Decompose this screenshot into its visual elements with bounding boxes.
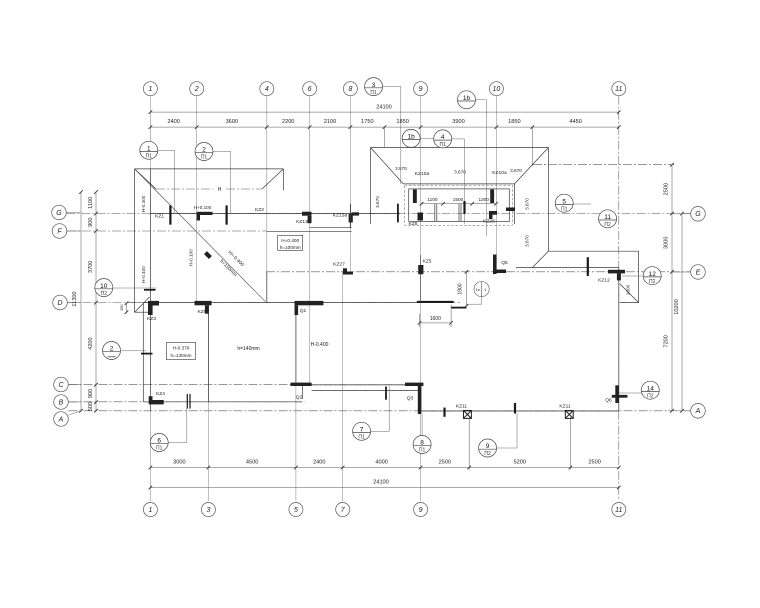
- svg-text:E: E: [696, 269, 701, 276]
- svg-text:11: 11: [615, 507, 622, 514]
- svg-text:h=100mm: h=100mm: [280, 245, 301, 250]
- svg-text:1e: 1e: [476, 288, 480, 292]
- porch slab outline: [409, 189, 510, 222]
- extension line eave to right dims: [533, 164, 674, 166]
- svg-text:5200: 5200: [514, 460, 526, 466]
- section marker 1b top: [458, 91, 476, 109]
- section marker 7: [353, 422, 371, 440]
- porch inner flat edge top: [403, 183, 514, 185]
- grid bubble A (right): [691, 404, 706, 419]
- roof corner box edge: [148, 303, 150, 312]
- grid line axis 3: [207, 303, 209, 501]
- svg-text:9: 9: [419, 507, 423, 514]
- grid bubble 10 (top): [489, 82, 503, 96]
- canopy hip south: [620, 284, 639, 303]
- grid line axis 11: [618, 96, 620, 501]
- grid bubble 11 (bottom): [612, 503, 626, 517]
- svg-text:KZ26: KZ26: [483, 218, 495, 224]
- svg-text:H-0.400: H-0.400: [141, 266, 146, 283]
- svg-text:2: 2: [110, 346, 114, 353]
- svg-text:10200: 10200: [674, 299, 680, 315]
- svg-text:KZ11: KZ11: [559, 403, 571, 409]
- wall axis 3 interior: [207, 303, 209, 402]
- svg-text:2400: 2400: [167, 119, 179, 125]
- grid bubble A (left): [54, 412, 69, 427]
- svg-text:1600: 1600: [430, 316, 441, 322]
- svg-text:KZ8: KZ8: [409, 221, 418, 227]
- column KZ4: [149, 396, 153, 400]
- svg-text:450: 450: [120, 305, 124, 311]
- svg-text:П1: П1: [358, 435, 365, 441]
- section marker 2b leader: [121, 350, 146, 352]
- svg-text:H-0.100: H-0.100: [189, 249, 194, 266]
- section marker 3: [365, 78, 383, 96]
- svg-text:1200: 1200: [478, 197, 489, 202]
- section marker 6 leader: [166, 442, 187, 444]
- section marker 5 leader: [573, 203, 591, 205]
- svg-text:3: 3: [372, 82, 376, 89]
- column KZ26: [489, 211, 497, 215]
- roof hip bottom-left: [135, 297, 150, 312]
- porch door frame bars 2: [458, 204, 460, 222]
- section marker 9 leader: [494, 447, 517, 449]
- svg-text:8: 8: [420, 440, 424, 447]
- dim 450 left: [126, 303, 128, 312]
- wall step at Q3: [419, 385, 421, 411]
- svg-text:3000: 3000: [663, 236, 669, 248]
- svg-text:11300: 11300: [72, 291, 78, 306]
- section marker 4: [434, 130, 452, 148]
- column blob right of KZ26: [506, 208, 515, 212]
- svg-text:П2: П2: [604, 222, 611, 228]
- svg-text:4200: 4200: [88, 337, 94, 349]
- column KZ9: [195, 301, 212, 305]
- door tick axis2-4: [226, 205, 228, 224]
- svg-text:A: A: [58, 416, 64, 423]
- svg-text:П2: П2: [484, 451, 491, 457]
- wall axis 4 to E corner: [266, 272, 268, 303]
- svg-text:KZ10a: KZ10a: [415, 171, 430, 177]
- svg-text:2500: 2500: [588, 460, 600, 466]
- wall step at Q2: [301, 385, 303, 399]
- extension line 1850 tick: [531, 128, 533, 167]
- svg-text:A: A: [695, 408, 701, 415]
- grid bubble 11 (top): [612, 82, 626, 96]
- svg-text:10: 10: [100, 283, 108, 290]
- svg-text:KZ4: KZ4: [156, 391, 165, 397]
- beam thick segment on D: [417, 301, 454, 303]
- svg-text:3.570: 3.570: [395, 166, 407, 171]
- porch roof left edge: [370, 148, 372, 225]
- porch hip right: [515, 148, 549, 184]
- section tick at E wall: [587, 257, 589, 276]
- section marker 2 leader: [213, 151, 231, 153]
- svg-text:7200: 7200: [663, 335, 669, 347]
- svg-text:Q5: Q5: [501, 260, 508, 266]
- svg-text:9: 9: [486, 443, 490, 450]
- grid line axis B: [69, 401, 306, 403]
- porch hip left: [371, 148, 404, 184]
- svg-text:h=140mm: h=140mm: [237, 346, 259, 352]
- grid bubble 7 (bottom): [336, 503, 350, 517]
- svg-text:Q6: Q6: [605, 397, 612, 403]
- section marker 11: [599, 210, 617, 228]
- grid line axis E: [266, 271, 691, 273]
- porch roof top edge: [371, 147, 549, 149]
- svg-text:3000: 3000: [173, 460, 185, 466]
- section marker 9: [479, 439, 497, 457]
- svg-text:6: 6: [157, 438, 161, 445]
- svg-text:1b: 1b: [463, 95, 471, 102]
- column KZ3: [148, 301, 159, 306]
- svg-text:24100: 24100: [373, 480, 389, 486]
- section marker 4 leader: [452, 138, 465, 140]
- beam line above F: [310, 227, 352, 229]
- beam end thick tick: [451, 307, 467, 309]
- grid line axis 4: [266, 96, 268, 303]
- svg-text:П1: П1: [146, 154, 153, 160]
- section marker 5: [555, 194, 573, 212]
- svg-text:3: 3: [206, 507, 210, 514]
- svg-text:1: 1: [147, 146, 151, 153]
- wall axis A south: [420, 410, 619, 412]
- section marker 8: [413, 436, 431, 454]
- grid bubble E (right): [691, 265, 706, 280]
- svg-text:4450: 4450: [569, 119, 581, 125]
- svg-text:900: 900: [88, 389, 94, 398]
- svg-text:KZ1: KZ1: [155, 214, 164, 220]
- door tick at A wall 2: [514, 403, 516, 414]
- svg-text:KZ9: KZ9: [198, 309, 207, 315]
- grid bubble 3 (bottom): [201, 503, 215, 517]
- wall axis 11 east: [618, 268, 620, 412]
- dim 1900 vertical: [466, 272, 468, 306]
- grid bubble 9 (top): [414, 82, 428, 96]
- svg-text:14: 14: [647, 385, 655, 392]
- door tick at B wall: [186, 394, 188, 409]
- roof eave right edge (left block): [282, 169, 284, 191]
- roof hip top-left: [135, 169, 156, 189]
- porch hidden edge (dashed): [405, 185, 513, 225]
- svg-text:9: 9: [419, 86, 423, 93]
- svg-text:1500: 1500: [453, 197, 464, 202]
- svg-text:1750: 1750: [361, 119, 373, 125]
- svg-text:П1: П1: [370, 90, 377, 96]
- svg-text:B: B: [59, 399, 64, 406]
- svg-text:1: 1: [148, 86, 152, 93]
- svg-text:Q3: Q3: [407, 395, 414, 401]
- svg-text:3.670: 3.670: [525, 235, 530, 247]
- section marker 1b mid: [402, 129, 420, 147]
- porch roof right edge: [547, 148, 549, 252]
- roof eave top (left block): [135, 168, 284, 170]
- canopy bottom edge: [620, 302, 639, 304]
- column KZ11 right: [565, 411, 573, 419]
- svg-text:П1: П1: [440, 142, 447, 148]
- grid bubble 5 (bottom): [289, 503, 303, 517]
- svg-text:Q2: Q2: [296, 394, 303, 400]
- wall axis 5 interior: [295, 303, 297, 385]
- svg-text:1100: 1100: [427, 197, 437, 202]
- svg-text:2: 2: [194, 86, 199, 93]
- canopy top edge: [548, 250, 638, 252]
- section marker 1: [140, 141, 158, 159]
- roof slope label blocks: [204, 251, 212, 259]
- section marker 1b top leader: [476, 99, 487, 101]
- grid bubble B (left): [54, 395, 69, 410]
- top segment dim line: [150, 126, 618, 128]
- grid line axis 1: [149, 96, 151, 501]
- svg-text:2100: 2100: [324, 119, 336, 125]
- svg-text:1b: 1b: [407, 134, 415, 141]
- svg-text:П1: П1: [561, 206, 568, 212]
- svg-text:KZ11: KZ11: [456, 403, 468, 409]
- svg-text:h=130mm: h=130mm: [171, 353, 192, 358]
- wall axis-1 west: [149, 169, 151, 411]
- left overall dim line 11300: [80, 192, 82, 411]
- section marker 14 leader: [619, 392, 641, 394]
- canopy right edge: [638, 251, 640, 302]
- svg-text:1900: 1900: [458, 283, 464, 294]
- svg-text:11: 11: [604, 214, 611, 221]
- grid line axis A: [69, 410, 691, 412]
- svg-text:3.670: 3.670: [375, 196, 380, 208]
- grid line axis 9: [420, 96, 422, 501]
- svg-text:3.670: 3.670: [510, 168, 522, 173]
- roof eave left edge: [134, 169, 136, 312]
- svg-text:H=0.400: H=0.400: [281, 238, 299, 243]
- extension line bottom tick 16400: [468, 417, 470, 470]
- roof ridge H: [156, 188, 213, 190]
- roof slope diagonal: [135, 170, 265, 302]
- wall axis B south-west: [143, 401, 302, 403]
- column KZ12: [608, 270, 625, 274]
- svg-text:П2: П2: [649, 279, 656, 285]
- grid line axis G: [67, 213, 691, 215]
- svg-text:KZ5: KZ5: [423, 259, 432, 265]
- grid bubble F (left): [52, 224, 67, 239]
- svg-text:H-0.370: H-0.370: [173, 346, 190, 351]
- svg-text:П1: П1: [156, 446, 163, 452]
- grid bubble D (left): [53, 295, 68, 310]
- svg-text:1600: 1600: [626, 284, 631, 295]
- grid line axis 7: [342, 272, 344, 501]
- section marker 8 leader: [421, 414, 423, 436]
- svg-text:8: 8: [348, 86, 352, 93]
- svg-text:D: D: [57, 300, 62, 307]
- column Q6: [615, 385, 618, 403]
- svg-text:1850: 1850: [508, 119, 520, 125]
- section marker 2b: [103, 342, 121, 360]
- svg-text:1100: 1100: [88, 197, 94, 209]
- top overall dim line 24100: [150, 111, 618, 113]
- grid bubble 8 (top): [343, 82, 357, 96]
- grid bubble 2 (top): [190, 82, 204, 96]
- grid line axis 2: [196, 96, 198, 303]
- svg-text:2200: 2200: [282, 119, 294, 125]
- section marker 12: [643, 267, 661, 285]
- svg-text:3600: 3600: [226, 119, 238, 125]
- svg-text:6: 6: [308, 86, 312, 93]
- wall axis G north: [150, 213, 400, 215]
- porch pier right: [490, 189, 494, 203]
- column Q at axis2 G: [197, 212, 213, 215]
- svg-text:3900: 3900: [452, 119, 464, 125]
- svg-text:5: 5: [294, 507, 298, 514]
- svg-text:H-0.400: H-0.400: [141, 195, 146, 212]
- svg-text:11: 11: [615, 86, 622, 93]
- grid line axis 6: [309, 96, 311, 385]
- section marker 10: [95, 279, 113, 297]
- svg-text:H-0.400: H-0.400: [311, 342, 329, 348]
- svg-text:KZ10a: KZ10a: [492, 170, 507, 176]
- grid bubble C (left): [54, 377, 69, 392]
- svg-text:KZ2: KZ2: [255, 207, 264, 213]
- detail circle 1e leader: [481, 297, 483, 305]
- svg-text:1: 1: [148, 507, 152, 514]
- section marker 6: [150, 434, 168, 452]
- svg-text:G: G: [695, 211, 701, 218]
- column KZ27: [343, 268, 347, 274]
- wall axis D: [143, 302, 453, 304]
- door tick at A wall 1: [443, 408, 445, 417]
- door tick axis1-2: [169, 205, 171, 224]
- svg-text:2500: 2500: [439, 460, 451, 466]
- column KZ11 left: [464, 411, 472, 419]
- svg-text:900: 900: [88, 218, 94, 227]
- svg-text:12: 12: [649, 271, 657, 278]
- column Q1: [295, 301, 324, 305]
- extension line bottom tick 21600: [569, 417, 571, 470]
- bottom overall dim line 24100: [150, 487, 618, 489]
- column KZ13: [302, 212, 312, 216]
- svg-text:KZ13a: KZ13a: [333, 212, 348, 218]
- svg-text:2500: 2500: [663, 183, 669, 195]
- roof eave bottom (left block): [135, 311, 149, 313]
- svg-text:2: 2: [202, 147, 206, 154]
- section marker 10 leader: [113, 287, 156, 289]
- porch inner flat edge right: [514, 184, 516, 224]
- svg-text:7: 7: [360, 427, 364, 434]
- svg-text:П2: П2: [101, 291, 108, 297]
- svg-text:2400: 2400: [313, 460, 325, 466]
- svg-text:KZ3: KZ3: [147, 316, 156, 322]
- svg-text:KZ27: KZ27: [333, 262, 345, 268]
- canopy hip west: [532, 251, 548, 267]
- annotation box H=0.400: [278, 235, 303, 250]
- grid line axis 10: [495, 96, 497, 274]
- svg-text:10: 10: [493, 86, 501, 93]
- dim 1600 horizontal: [420, 322, 452, 324]
- svg-text:4000: 4000: [375, 460, 387, 466]
- svg-text:3700: 3700: [88, 261, 94, 273]
- wall axis C face lower: [312, 390, 420, 392]
- left segment dim line: [95, 192, 97, 411]
- column KZ8: [397, 204, 399, 223]
- beam line on axis F: [267, 230, 352, 232]
- extension line 1750 tick: [384, 127, 386, 147]
- grid line axis F: [67, 230, 267, 232]
- section marker 14: [641, 381, 659, 399]
- svg-text:Q1: Q1: [300, 308, 307, 314]
- svg-text:KZ13: KZ13: [296, 219, 308, 225]
- porch door frame bars 1: [434, 204, 436, 222]
- right segment dim line: [671, 165, 673, 411]
- svg-text:1: 1: [484, 288, 486, 292]
- grid bubble G (left): [52, 205, 67, 220]
- grid line axis 5: [295, 303, 297, 501]
- right overall dim line 10200: [681, 214, 683, 411]
- svg-text:4500: 4500: [246, 460, 258, 466]
- section marker 3 leader: [383, 85, 401, 87]
- svg-text:F: F: [57, 228, 62, 235]
- grid line axis 8: [349, 96, 351, 272]
- bottom segment dim line: [150, 467, 618, 469]
- svg-text:П1: П1: [201, 155, 208, 161]
- section marker 1 leader: [158, 149, 175, 151]
- section marker 12 leader: [622, 275, 643, 277]
- svg-text:5: 5: [562, 198, 566, 205]
- svg-text:G: G: [56, 210, 62, 217]
- column Q3: [405, 383, 423, 386]
- svg-text:П1: П1: [419, 448, 426, 454]
- grid bubble 4 (top): [260, 82, 274, 96]
- grid bubble 9 (bottom): [414, 503, 428, 517]
- column KZ5: [418, 265, 423, 274]
- svg-text:3.670: 3.670: [525, 198, 530, 210]
- column Q5: [493, 255, 497, 275]
- wall axis 9 interior: [420, 255, 422, 303]
- roof hip top-right: [262, 169, 283, 189]
- detail circle 1e: [474, 282, 489, 297]
- svg-text:1850: 1850: [396, 119, 408, 125]
- grid line axis D: [68, 302, 461, 304]
- column Q2: [291, 383, 312, 386]
- grid bubble 1 (bottom): [143, 503, 157, 517]
- grid bubble 6 (top): [303, 82, 317, 96]
- porch pier left: [413, 189, 417, 203]
- svg-text:П2: П2: [647, 393, 654, 399]
- grid bubble 1 (top): [143, 82, 157, 96]
- svg-text:24100: 24100: [376, 105, 392, 111]
- section marker 2: [195, 143, 213, 161]
- wall axis C face upper: [302, 384, 423, 386]
- section marker 7 leader: [368, 430, 389, 432]
- svg-text:H: H: [218, 187, 222, 193]
- svg-text:KZ12: KZ12: [598, 277, 610, 283]
- section marker 1b mid leader: [420, 137, 434, 139]
- svg-text:500: 500: [88, 402, 94, 411]
- svg-text:4: 4: [265, 86, 269, 93]
- annotation box H=0.370: [167, 343, 196, 360]
- grid bubble G (right): [691, 207, 706, 222]
- grid line axis C: [69, 384, 425, 386]
- porch dim line 1100/1500/1200: [422, 203, 496, 205]
- wall west outer face: [142, 303, 144, 402]
- svg-text:4: 4: [441, 134, 445, 141]
- svg-text:H+0.100: H+0.100: [194, 205, 212, 210]
- column KZ13a: [352, 212, 360, 215]
- wall north of east wing: [516, 267, 619, 269]
